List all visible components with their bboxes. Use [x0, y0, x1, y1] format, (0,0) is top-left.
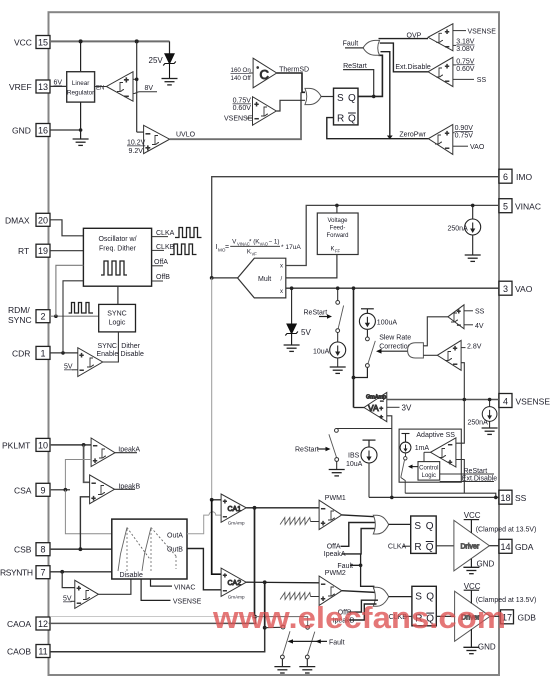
hysteresis glyph in disable comparator [83, 591, 90, 600]
svg-text:PWM2: PWM2 [325, 570, 346, 577]
S-R latch A [411, 516, 437, 553]
wire RT to oscillator [50, 250, 83, 252]
svg-text:PKLMT: PKLMT [2, 440, 30, 450]
wire Fault output [345, 47, 364, 49]
svg-text:−: − [80, 368, 84, 375]
svg-text:* 17uA: * 17uA [281, 244, 301, 251]
wire VA apex stub [354, 407, 365, 409]
pin IMO 6 box [499, 169, 512, 183]
svg-text:GmAmp: GmAmp [228, 520, 245, 525]
driver B triangle [455, 591, 491, 641]
wire ReStart from control logic [440, 473, 494, 475]
wire Fault up to IpeakA line [360, 554, 362, 565]
block Adaptive SS outer box [399, 429, 461, 482]
wire PKLMT input [50, 444, 91, 446]
AND gate slew rate (left facing) [408, 343, 424, 358]
wire CDR up to oscillator [63, 281, 83, 353]
pin PKLMT 10 box [36, 438, 50, 451]
svg-text:Logic: Logic [109, 320, 126, 327]
wire disable comp output to ramp box [98, 579, 130, 594]
junction CAOA at CA1 output [253, 506, 257, 510]
svg-text:VSENSE: VSENSE [224, 115, 253, 122]
svg-text:13: 13 [38, 82, 48, 92]
node junction on VCC rail at comparator branch [135, 39, 139, 43]
svg-text:S: S [337, 93, 344, 104]
wire CLKA to latch R [403, 545, 411, 547]
svg-text:PWM1: PWM1 [325, 495, 346, 502]
block SYNC Logic [99, 304, 136, 332]
junction CAOA node [253, 615, 257, 619]
ground below driver A [463, 567, 479, 573]
current source 250nA on VSENSE [489, 400, 491, 407]
block Linear Regulator [67, 72, 95, 102]
svg-text:UVLO: UVLO [176, 132, 196, 139]
S-R latch fault [334, 88, 359, 125]
junction RSYNTH node [60, 570, 64, 574]
svg-text:5V: 5V [64, 364, 73, 371]
wire VINAC into feed-forward block [336, 205, 338, 213]
svg-text:+: + [223, 573, 227, 580]
svg-text:−: − [92, 480, 96, 487]
ground below driver B [463, 647, 479, 653]
wire Fault vertical between OR gates [350, 565, 374, 589]
svg-text:Slew Rate: Slew Rate [379, 335, 411, 342]
wire 250nA to ground (VSENSE) [489, 421, 491, 427]
op-amp IpeakA comparator [91, 438, 115, 467]
switch adaptive SS [401, 453, 407, 493]
wire CSA down to ramp box [65, 490, 111, 534]
wire feed-forward to multiplier divide input [286, 255, 337, 278]
svg-text:Regulator: Regulator [67, 90, 94, 97]
wire 2.8V comp output to AND [423, 354, 437, 356]
junction VSENSE at comparator branch [463, 398, 467, 402]
wire CSA input [50, 489, 70, 491]
svg-text:FF: FF [335, 249, 341, 254]
hysteresis glyph in SS-4V comparator [451, 313, 458, 322]
wire OffA stub [152, 265, 163, 267]
wire CSB input [50, 548, 112, 550]
svg-text:SYNC: SYNC [98, 343, 117, 350]
waveform glyph RDM/SYNC [69, 303, 93, 314]
svg-text:140 Off: 140 Off [231, 75, 251, 82]
junction VA output node [352, 376, 356, 380]
svg-text:CLKA: CLKA [156, 230, 175, 237]
hysteresis glyph in OVP [436, 33, 443, 42]
svg-text:−: − [255, 116, 259, 123]
wire IMO from multiplier to pin 6 [212, 177, 499, 278]
svg-text:IBS: IBS [348, 453, 360, 460]
wire DMAX to oscillator [50, 220, 83, 236]
wire GND pin [50, 129, 81, 131]
wire ZeroPwr up to fault OR [381, 52, 390, 138]
ground below 25V zener [162, 79, 178, 85]
wire CA1 output down to CAOA [254, 508, 256, 617]
arrow fault to switch levers [288, 639, 328, 643]
pin VINAC 5 box [499, 199, 512, 213]
op-amp OVP comparator (left facing) [428, 24, 453, 51]
wire sync logic to oscillator [117, 286, 119, 304]
wire VREF to regulator [50, 85, 67, 87]
svg-text:(Clamped at 13.5V): (Clamped at 13.5V) [476, 526, 537, 533]
svg-text:12: 12 [38, 619, 48, 629]
op-amp SS-4V comparator (left facing) [448, 305, 464, 329]
svg-text:VSENSE: VSENSE [468, 28, 497, 35]
svg-text:−: − [93, 443, 97, 450]
wire driver A to GDA [489, 545, 499, 547]
junction CDR node [61, 351, 65, 355]
junction arrow ZeroPwr net [387, 136, 393, 140]
svg-text:x: x [280, 263, 283, 269]
svg-text:3.08V: 3.08V [456, 46, 475, 53]
wire SS-4V comp output to AND [423, 317, 448, 346]
wire OR-A to latch S [389, 523, 411, 525]
wire CSA to IpeakA plus [65, 460, 91, 490]
junction VAO at 5V zener [290, 286, 294, 290]
svg-text:9.2V: 9.2V [129, 148, 144, 155]
svg-text:Forward: Forward [326, 233, 348, 239]
svg-text:Fault: Fault [329, 640, 345, 647]
ground below fault switch 2 [299, 667, 315, 673]
wire 5V ref stub [72, 369, 78, 371]
wire comparator + input from VCC sense [133, 78, 137, 80]
svg-text:+: + [124, 76, 129, 85]
svg-text:OutB: OutB [167, 547, 183, 554]
wire driver A gnd stub [470, 559, 472, 567]
svg-text:VINAC: VINAC [515, 202, 541, 212]
wire latch Q output [358, 55, 382, 96]
wire OutB to CA2 minus [187, 549, 221, 590]
arrow slew-rate control to switch [376, 349, 408, 354]
ground below 5V zener [284, 345, 300, 351]
block Control Logic [418, 462, 440, 481]
junction SS at VA+ [390, 496, 394, 500]
wire PWM1 output to OR-A [342, 515, 377, 517]
value label 0.75V / 0.60V (ExtDisable) [456, 58, 475, 73]
value label 0.90V / 0.75V [455, 125, 474, 140]
switch fault pull-down 1 [281, 625, 291, 659]
svg-text:Linear: Linear [72, 80, 90, 87]
wire CSB to IpeakB plus [80, 497, 89, 549]
svg-text:www.elecfans.com: www.elecfans.com [212, 601, 506, 635]
svg-text:−: − [146, 129, 151, 138]
wire SS rail [369, 496, 499, 498]
svg-text:Disable: Disable [120, 572, 143, 579]
current source 250nA on VINAC [472, 205, 474, 219]
pin RDM/SYNC 2 box [36, 310, 50, 323]
svg-text:Logic: Logic [422, 473, 436, 479]
op-amp ZeroPwr comparator (left facing) [428, 125, 453, 155]
wire VSENSE stub to comparator [246, 117, 253, 119]
ground below VSENSE 250nA [482, 428, 498, 434]
wire VINAC label stub (ramp box) [151, 579, 173, 586]
svg-text:CA2: CA2 [228, 580, 242, 587]
junction CSA node [64, 488, 68, 492]
pin SS 18 box [499, 490, 512, 504]
svg-text:0.75V: 0.75V [456, 58, 475, 65]
svg-text:+: + [380, 415, 384, 421]
wire switch to 10uA source [337, 333, 339, 343]
svg-text:OffA: OffA [154, 259, 168, 266]
block Voltage Feed-Forward [317, 213, 358, 255]
wire CLKA stub [152, 236, 168, 238]
S-R latch B [412, 586, 436, 626]
wire driver B to GDB [490, 615, 500, 617]
svg-text:5V: 5V [301, 328, 311, 337]
wire IpeakB output stub [115, 488, 136, 490]
op-amp VREF-good comparator (left facing) [106, 72, 133, 102]
svg-text:−: − [380, 399, 384, 405]
svg-text:−: − [77, 601, 81, 608]
wire 5V ref stub (disable comp) [71, 600, 75, 602]
waveform glyph CLKA [175, 228, 202, 238]
op-amp RSYNTH 5V disable comparator [75, 580, 99, 608]
wire VSENSE label stub (ramp box) [141, 579, 170, 600]
svg-text:VREF: VREF [9, 82, 32, 92]
op-amp PWM1 comparator [319, 500, 342, 529]
value label 160 On / 140 Off [231, 67, 252, 82]
svg-text:=: = [225, 244, 229, 251]
junction VAO at restart switch [336, 286, 340, 290]
waveform glyph ramp B [142, 528, 176, 572]
svg-text:0.60V: 0.60V [233, 105, 252, 112]
wire OffB to OR-B [349, 600, 379, 612]
svg-text:GDB: GDB [518, 613, 537, 623]
zener diode 25V [163, 54, 176, 78]
wire IpeakA output stub [115, 452, 137, 454]
wire switch 1 to ground [281, 659, 283, 666]
wire ZeroPwr + stub [453, 132, 455, 134]
wire adaptive comp output to control logic [424, 451, 431, 453]
pin CAOA 12 box [36, 617, 50, 630]
wire VINAC from pin 5 [286, 205, 499, 265]
svg-text:−: − [124, 92, 129, 101]
wire SS input [464, 310, 473, 312]
waveform glyph inside oscillator [101, 261, 127, 275]
wire IMO down to current amps [211, 278, 213, 500]
svg-text:−: − [321, 506, 325, 513]
pin RT 19 box [36, 244, 50, 257]
svg-text:CDR: CDR [12, 348, 30, 358]
waveform glyph ramp A [118, 528, 151, 572]
wire restart switch branch [337, 288, 339, 300]
svg-text:160 On: 160 On [231, 67, 252, 74]
svg-text:VSENSE: VSENSE [173, 599, 202, 606]
svg-text:RT: RT [18, 246, 29, 256]
svg-text:+: + [453, 346, 457, 353]
svg-text:−: − [448, 442, 452, 449]
wire CAOA to fault switch 2 [255, 617, 308, 626]
svg-text:+: + [93, 458, 97, 465]
svg-text:14: 14 [500, 542, 510, 552]
svg-text:OVP: OVP [407, 33, 422, 40]
wire Ext.Disable from control logic [440, 481, 494, 483]
wire ExtDisable + stub [453, 64, 456, 66]
hysteresis glyph in UVLO comparator [152, 136, 159, 145]
svg-text:10.2V: 10.2V [127, 140, 146, 147]
svg-text:16: 16 [38, 126, 48, 136]
svg-text:Oscillator w/: Oscillator w/ [98, 236, 136, 243]
svg-text:GmAmp: GmAmp [228, 594, 245, 599]
wire VCC rail [50, 40, 170, 42]
junction ReStart on Q [372, 95, 376, 99]
wire VCC sense vertical [136, 41, 138, 132]
svg-text:−: − [453, 362, 457, 369]
wire CA2 output down to CAOB [264, 582, 266, 627]
svg-text:VINAC: VINAC [237, 242, 250, 247]
svg-text:6: 6 [503, 172, 508, 182]
pin VAO 3 box [499, 281, 512, 295]
OR gate B [373, 587, 388, 606]
op-amp ExtDisable comparator (left facing) [428, 57, 453, 86]
svg-text:RDM/: RDM/ [8, 305, 30, 315]
zener diode 5V clamp [285, 324, 298, 345]
hysteresis glyph in IpeakB [98, 486, 105, 495]
svg-text:SS: SS [475, 308, 485, 315]
svg-text:Mult: Mult [258, 276, 271, 283]
svg-text:RSYNTH: RSYNTH [0, 568, 33, 578]
svg-text:VF: VF [252, 252, 258, 257]
ground below SS restart switch [329, 470, 345, 476]
svg-text:Q: Q [348, 93, 356, 104]
op-amp CDR 5V comparator [78, 348, 103, 377]
pin RSYNTH 7 box [36, 566, 50, 579]
junction GND node [79, 128, 83, 132]
svg-text:+: + [77, 586, 81, 593]
svg-text:250nA: 250nA [468, 420, 489, 427]
svg-text:250nA: 250nA [448, 226, 469, 233]
wire OR-B to latch S [389, 596, 412, 598]
pin CSA 9 box [36, 483, 50, 496]
wire sawtooth to PWM1 plus [311, 521, 320, 523]
op-amp current amplifier CA1 [221, 494, 246, 522]
switch SS restart [329, 429, 339, 462]
svg-text:Voltage: Voltage [327, 218, 348, 224]
svg-text:VCC: VCC [14, 38, 32, 48]
svg-text:VCC: VCC [464, 582, 481, 591]
pin GND 16 box [36, 124, 50, 137]
svg-text:GDA: GDA [515, 542, 534, 552]
OR gate A [373, 515, 388, 534]
svg-text:20: 20 [38, 215, 48, 225]
pin GDA 14 box [499, 539, 512, 553]
wire UVLO output long run [170, 92, 301, 139]
svg-text:+: + [445, 29, 449, 36]
svg-text:CAOA: CAOA [7, 619, 31, 629]
svg-text:Driver: Driver [461, 544, 480, 551]
hysteresis glyph in brownout comparator [261, 107, 268, 116]
wire zener 25V branch [169, 41, 171, 53]
svg-text:ZeroPwr: ZeroPwr [399, 131, 426, 138]
svg-text:−: − [321, 582, 325, 589]
svg-text:VAO: VAO [515, 284, 533, 294]
svg-text:VA: VA [368, 403, 379, 413]
svg-text:+: + [380, 407, 384, 413]
svg-text:+: + [445, 64, 449, 71]
svg-text:+: + [223, 498, 227, 505]
ground below fault switch 1 [274, 667, 290, 673]
svg-text:25V: 25V [149, 56, 164, 65]
svg-text:DMAX: DMAX [5, 215, 30, 225]
svg-text:SYNC: SYNC [8, 315, 32, 325]
wire IMO thick down to CA2 [212, 500, 221, 574]
svg-text:SYNC: SYNC [107, 311, 126, 318]
wire CLKB stub [152, 249, 164, 251]
svg-text:SS: SS [515, 493, 527, 503]
wire 10uA to ground [337, 358, 339, 367]
svg-text:6V: 6V [54, 80, 63, 87]
svg-text:Freq. Dither: Freq. Dither [99, 246, 137, 253]
junction CAOB node [263, 626, 267, 630]
svg-text:5: 5 [503, 202, 508, 212]
svg-text:Dither: Dither [121, 343, 140, 350]
svg-text:x: x [280, 289, 283, 295]
svg-text:Q: Q [426, 542, 434, 553]
OR gate fault (left facing) [363, 40, 379, 55]
hysteresis glyph in EN comparator [117, 83, 124, 92]
op-amp thermal shutdown comparator [253, 58, 277, 88]
svg-text:Adaptive SS: Adaptive SS [416, 432, 455, 439]
wire RSYNTH input [50, 571, 112, 573]
pin VSENSE 4 box [499, 394, 512, 408]
wire regulator top stub [80, 41, 82, 71]
wire ReStart from latch Q [343, 70, 374, 97]
wire ExtDisable - input to SS [453, 78, 474, 80]
svg-text:−: − [457, 323, 461, 329]
op-amp adaptive SS comparator (left facing) [431, 438, 456, 467]
value label 0.75V / 0.60V [233, 98, 252, 113]
svg-text:0.60V: 0.60V [456, 66, 475, 73]
supply bar above IBS [363, 440, 376, 447]
svg-text:−: − [223, 588, 227, 595]
wire 5V zener stub [291, 288, 293, 323]
wire IpeakB to OR-B [349, 604, 377, 620]
svg-text:3V: 3V [402, 404, 412, 413]
svg-text:CSA: CSA [14, 485, 32, 495]
wire switch 2 to ground [306, 659, 308, 666]
wire OR to latch S [321, 96, 333, 98]
svg-text:OutA: OutA [167, 533, 183, 540]
supply bar above 100uA [361, 309, 374, 314]
svg-text:Ext.Disable: Ext.Disable [395, 64, 431, 71]
node junction on VCC rail at regulator [79, 39, 83, 43]
svg-text:VAO: VAO [260, 242, 269, 247]
wire latch A Qbar to driver [436, 545, 454, 547]
wire switch to ground (SS restart) [336, 461, 338, 469]
wire IMO to CA1 plus [212, 499, 221, 501]
hop over IMO vertical (OutA) [209, 512, 221, 515]
junction IMO at CA1 [210, 498, 214, 502]
hysteresis glyph in CDR comparator [87, 358, 94, 367]
svg-text:1mA: 1mA [415, 445, 430, 452]
wire OffA to OR-A [341, 523, 379, 547]
svg-text:ReStart: ReStart [464, 468, 488, 475]
wire OVP + input to VSENSE [453, 30, 466, 32]
ground below VINAC 250nA [465, 255, 481, 261]
svg-text:10: 10 [38, 440, 48, 450]
wire VA + to 3V ref [387, 406, 400, 408]
pin VREF 13 box [36, 80, 50, 93]
wire ZeroPwr - input to VAO [453, 145, 468, 147]
svg-text:GND: GND [478, 642, 496, 651]
driver A triangle [454, 520, 490, 571]
current source 1mA [400, 442, 411, 453]
svg-text:R: R [414, 542, 421, 553]
wire thermal comparator input stub [249, 72, 253, 74]
wire PKLMT down to IpeakB comp [84, 445, 90, 482]
switch restart on VAO [336, 301, 344, 333]
value label IBS 10uA [346, 453, 363, 469]
svg-text:CA1: CA1 [228, 506, 242, 513]
